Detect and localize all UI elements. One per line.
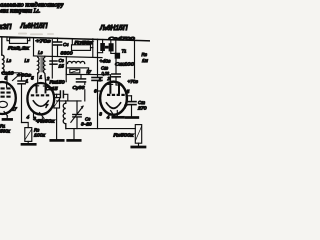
svg-text:1м: 1м bbox=[142, 58, 149, 63]
ground under tube1 bbox=[6, 116, 8, 118]
wire C10 to tube3 pin6 bbox=[98, 90, 101, 92]
wire T1 bottom leads bbox=[98, 51, 103, 53]
inductor L7 slug box bbox=[66, 68, 88, 75]
svg-text:270: 270 bbox=[137, 106, 147, 111]
wire transformer leads to tube2 bbox=[37, 73, 39, 83]
trimmer capacitor C6 bbox=[76, 101, 78, 114]
svg-text:+70в: +70в bbox=[128, 79, 139, 84]
wire grid rail to tube1 bbox=[2, 72, 22, 74]
svg-text:3: 3 bbox=[33, 116, 36, 121]
wire Cy36 leads bbox=[80, 75, 82, 79]
svg-text:1: 1 bbox=[99, 77, 102, 82]
faint show-through marks bbox=[18, 33, 54, 36]
svg-text:C10: C10 bbox=[101, 66, 108, 71]
ground under tube3 bbox=[116, 111, 118, 117]
svg-text:100к: 100к bbox=[34, 133, 46, 138]
svg-text:560к: 560к bbox=[0, 129, 11, 134]
svg-text:6: 6 bbox=[94, 89, 97, 94]
inductor L8 coil bbox=[63, 101, 66, 129]
capacitor C5 series bbox=[54, 93, 60, 95]
svg-text:1: 1 bbox=[40, 75, 43, 80]
tube2 bottom pin wires bbox=[33, 113, 35, 118]
ground under R9 bbox=[132, 146, 145, 149]
svg-text:Cу36: Cу36 bbox=[73, 85, 85, 90]
svg-text:4: 4 bbox=[27, 115, 30, 120]
svg-text:5: 5 bbox=[31, 76, 34, 81]
transformer T1 core blob bbox=[100, 43, 113, 51]
wire jog to R3 bbox=[22, 123, 29, 128]
tube2 grid dashes bbox=[31, 94, 49, 96]
tube3 cathode arrow bbox=[111, 111, 115, 117]
svg-text:5: 5 bbox=[5, 76, 8, 81]
inductor L3 coil on left edge bbox=[2, 55, 4, 73]
svg-text:Т1: Т1 bbox=[122, 49, 127, 54]
wire L7 box left drop bbox=[65, 75, 67, 82]
capacitor C12 bbox=[131, 96, 133, 101]
wire bottom rail bbox=[66, 128, 135, 130]
svg-text:27: 27 bbox=[11, 107, 18, 112]
tube1 electrodes bbox=[1, 87, 11, 97]
svg-text:R9500к: R9500к bbox=[114, 133, 135, 138]
wire from bus to T1 secondary bbox=[115, 40, 117, 53]
wire C11 into tube3 bbox=[115, 83, 117, 86]
svg-text:3300: 3300 bbox=[61, 51, 73, 56]
wire top supply bus bbox=[0, 37, 150, 41]
wire oscillator top rail bbox=[57, 100, 81, 102]
ground under tube2 bbox=[37, 119, 48, 122]
wire tube3 pin5 bbox=[127, 95, 132, 97]
ground under C12 bbox=[126, 116, 138, 119]
wire left border bbox=[1, 37, 3, 55]
tube2 cathode bbox=[33, 101, 48, 107]
ground under R3 bbox=[22, 143, 35, 146]
wire C3 down between tubes bbox=[21, 84, 23, 122]
svg-text:кЗП: кЗП bbox=[0, 22, 12, 31]
transformer T1 secondary blob bbox=[115, 53, 120, 59]
tube1 envelope bbox=[0, 82, 16, 114]
svg-text:2: 2 bbox=[107, 76, 111, 81]
capacitor C11 bbox=[112, 73, 120, 75]
tube2 anode bars bbox=[36, 86, 38, 93]
resistor R9 bbox=[135, 125, 141, 144]
capacitor C10 bbox=[92, 77, 102, 79]
resistor R4 bbox=[56, 94, 58, 97]
tube3 grid dashes bbox=[107, 94, 125, 96]
svg-text:C84700: C84700 bbox=[109, 36, 136, 41]
capacitor C9 bbox=[50, 60, 57, 62]
wire diagonal jog bbox=[13, 75, 20, 81]
tube1 cathode oval bbox=[0, 101, 7, 107]
wire L7 to tube3 grid bbox=[89, 73, 111, 75]
tube1 cathode lead arrow bbox=[4, 112, 8, 117]
svg-text:ена катушка L1.: ена катушка L1. bbox=[0, 7, 41, 14]
wire vertical at x33.5 bbox=[33, 38, 35, 56]
svg-text:+40в: +40в bbox=[100, 59, 112, 64]
capacitor C4 bbox=[57, 38, 59, 41]
tube2 envelope bbox=[27, 83, 54, 114]
wire second bus (screen rail) bbox=[34, 56, 103, 58]
resistor R3 bbox=[25, 128, 32, 142]
tube3 anode bars bbox=[109, 84, 111, 92]
svg-text:R5150: R5150 bbox=[50, 79, 65, 84]
svg-text:15: 15 bbox=[59, 64, 65, 69]
svg-text:Л26Н15П: Л26Н15П bbox=[20, 21, 48, 30]
wire T1 primary top leads bbox=[102, 40, 104, 44]
wire vertical at x52 bbox=[51, 40, 53, 79]
resistor R2 bbox=[7, 37, 10, 41]
capacitor Cy36 plates bbox=[77, 78, 86, 80]
ground under R4 bbox=[51, 139, 63, 142]
capacitor C3 bbox=[21, 73, 23, 81]
wire +40v node bbox=[97, 39, 99, 77]
svg-text:C12: C12 bbox=[138, 100, 145, 105]
svg-text:3: 3 bbox=[99, 112, 102, 117]
svg-text:R22,2к: R22,2к bbox=[8, 46, 30, 52]
tube3 envelope bbox=[100, 82, 127, 115]
wire right column from bus bbox=[134, 40, 136, 78]
svg-text:R756к: R756к bbox=[75, 40, 94, 45]
ground under L8/C6 bbox=[73, 129, 75, 140]
resistor R7 bbox=[71, 39, 73, 45]
transformer L5/L6 right winding bbox=[44, 56, 46, 84]
svg-text:4: 4 bbox=[107, 115, 110, 120]
svg-text:5: 5 bbox=[127, 89, 130, 94]
svg-text:C11100: C11100 bbox=[115, 62, 135, 67]
trimmer arrow bbox=[71, 106, 83, 122]
inductor L7 coil bbox=[65, 57, 67, 75]
svg-text:3–20: 3–20 bbox=[81, 122, 92, 127]
svg-text:+70в: +70в bbox=[36, 39, 52, 44]
svg-text:1: 1 bbox=[26, 79, 29, 84]
transformer core lines bbox=[40, 58, 42, 73]
svg-text:C9: C9 bbox=[59, 58, 64, 63]
wire bus to C11 to tube3 grid bbox=[115, 59, 117, 74]
transformer L5/L6 left winding bbox=[38, 56, 39, 73]
svg-text:Л36Н15П: Л36Н15П bbox=[99, 23, 128, 32]
tube3 cathode bbox=[106, 103, 120, 108]
